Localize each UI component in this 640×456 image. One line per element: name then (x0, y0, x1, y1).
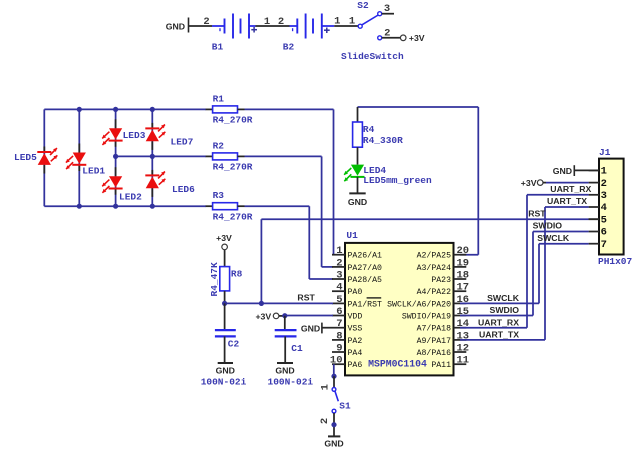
svg-text:A7/PA18: A7/PA18 (417, 324, 451, 334)
svg-text:UART_RX: UART_RX (550, 184, 591, 194)
svg-text:SWDIO/PA19: SWDIO/PA19 (402, 311, 451, 321)
svg-text:PA26/A1: PA26/A1 (348, 251, 382, 261)
svg-text:5: 5 (601, 214, 607, 226)
svg-text:10: 10 (330, 355, 343, 367)
svg-text:S2: S2 (357, 0, 369, 11)
svg-text:6: 6 (601, 227, 607, 239)
svg-text:LED5mm_green: LED5mm_green (363, 175, 432, 186)
svg-text:3: 3 (384, 3, 390, 15)
svg-text:UART_RX: UART_RX (478, 317, 519, 327)
svg-text:PA0: PA0 (348, 288, 363, 297)
svg-text:SWCLK: SWCLK (487, 293, 520, 303)
svg-text:SWDIO: SWDIO (490, 305, 520, 315)
svg-text:SWDIO: SWDIO (533, 221, 563, 231)
svg-text:18: 18 (457, 269, 470, 281)
svg-text:R4_47K: R4_47K (209, 262, 220, 297)
svg-text:1: 1 (601, 166, 607, 178)
svg-text:12: 12 (457, 342, 470, 354)
svg-text:PA23: PA23 (431, 276, 451, 285)
svg-text:9: 9 (336, 342, 342, 354)
svg-text:R4_270R: R4_270R (213, 115, 253, 126)
svg-text:100N-02i: 100N-02i (268, 377, 314, 388)
svg-text:PA4: PA4 (348, 349, 363, 358)
svg-text:A3/PA24: A3/PA24 (417, 263, 451, 273)
svg-text:2: 2 (203, 16, 209, 28)
svg-text:R2: R2 (213, 140, 225, 151)
svg-text:R4_270R: R4_270R (213, 162, 253, 173)
svg-text:LED1: LED1 (82, 166, 105, 177)
svg-text:RST: RST (297, 292, 315, 302)
svg-text:R4_330R: R4_330R (363, 135, 403, 146)
svg-text:3: 3 (336, 269, 342, 281)
svg-text:UART_TX: UART_TX (547, 196, 587, 206)
svg-text:PA1/RST: PA1/RST (348, 299, 382, 309)
svg-text:PA6: PA6 (348, 361, 363, 370)
svg-text:B1: B1 (212, 42, 224, 53)
svg-text:GND: GND (348, 197, 367, 207)
svg-text:J1: J1 (599, 147, 611, 158)
svg-text:2: 2 (384, 28, 390, 40)
svg-text:SWCLK: SWCLK (537, 233, 570, 243)
svg-text:PA11: PA11 (431, 361, 451, 370)
svg-text:+3V: +3V (255, 312, 271, 322)
svg-text:100N-02i: 100N-02i (201, 377, 247, 388)
svg-text:7: 7 (601, 239, 607, 251)
svg-text:1: 1 (336, 245, 342, 257)
svg-text:GND: GND (324, 439, 343, 449)
svg-text:4: 4 (336, 282, 342, 294)
svg-text:20: 20 (457, 245, 470, 257)
svg-text:5: 5 (336, 294, 342, 306)
svg-text:LED6: LED6 (172, 184, 195, 195)
svg-text:3: 3 (601, 190, 607, 202)
svg-text:LED7: LED7 (171, 137, 194, 148)
svg-text:GND: GND (216, 365, 235, 375)
svg-text:6: 6 (336, 306, 342, 318)
svg-text:+3V: +3V (216, 233, 232, 243)
svg-text:GND: GND (301, 323, 320, 333)
svg-text:GND: GND (166, 21, 185, 31)
svg-text:C1: C1 (291, 343, 303, 354)
svg-text:RST: RST (528, 208, 546, 218)
svg-text:1: 1 (349, 16, 355, 28)
svg-text:7: 7 (336, 318, 342, 330)
svg-text:PH1x07: PH1x07 (598, 256, 633, 267)
svg-text:A9/PA17: A9/PA17 (417, 336, 451, 346)
svg-text:A4/PA22: A4/PA22 (417, 287, 451, 297)
svg-text:PA2: PA2 (348, 337, 363, 346)
svg-text:1: 1 (320, 384, 332, 390)
svg-text:2: 2 (601, 178, 607, 190)
svg-text:LED3: LED3 (123, 130, 146, 141)
svg-text:B2: B2 (283, 42, 295, 53)
svg-text:SlideSwitch: SlideSwitch (341, 51, 404, 62)
svg-text:R4_270R: R4_270R (213, 212, 253, 223)
svg-text:R3: R3 (213, 190, 225, 201)
svg-text:R4: R4 (363, 124, 375, 135)
svg-text:+3V: +3V (521, 178, 537, 188)
svg-text:GND: GND (553, 166, 572, 176)
svg-text:U1: U1 (346, 230, 358, 241)
svg-text:2: 2 (319, 418, 331, 424)
svg-text:S1: S1 (339, 401, 351, 412)
svg-text:LED5: LED5 (14, 152, 37, 163)
svg-text:A8/PA16: A8/PA16 (417, 348, 451, 358)
svg-text:8: 8 (336, 330, 342, 342)
svg-text:4: 4 (601, 202, 607, 214)
svg-text:1: 1 (334, 16, 340, 28)
svg-text:R8: R8 (231, 269, 243, 280)
svg-text:LED2: LED2 (119, 191, 142, 202)
svg-text:19: 19 (457, 257, 470, 269)
svg-text:PA27/A0: PA27/A0 (348, 263, 382, 273)
svg-text:11: 11 (457, 355, 470, 367)
svg-text:C2: C2 (228, 338, 240, 349)
svg-text:GND: GND (275, 365, 294, 375)
svg-text:+3V: +3V (409, 33, 425, 43)
svg-text:1: 1 (264, 16, 270, 28)
svg-text:UART_TX: UART_TX (479, 330, 519, 340)
svg-text:R1: R1 (213, 93, 225, 104)
svg-text:17: 17 (457, 282, 470, 294)
svg-text:A2/PA25: A2/PA25 (417, 251, 451, 261)
svg-text:VSS: VSS (348, 325, 363, 334)
svg-text:VDD: VDD (348, 312, 363, 321)
svg-text:2: 2 (278, 16, 284, 28)
svg-text:2: 2 (336, 257, 342, 269)
svg-text:PA28/A5: PA28/A5 (348, 275, 382, 285)
svg-text:SWCLK/A6/PA20: SWCLK/A6/PA20 (387, 299, 451, 309)
svg-text:MSPM0C1104: MSPM0C1104 (368, 358, 427, 369)
